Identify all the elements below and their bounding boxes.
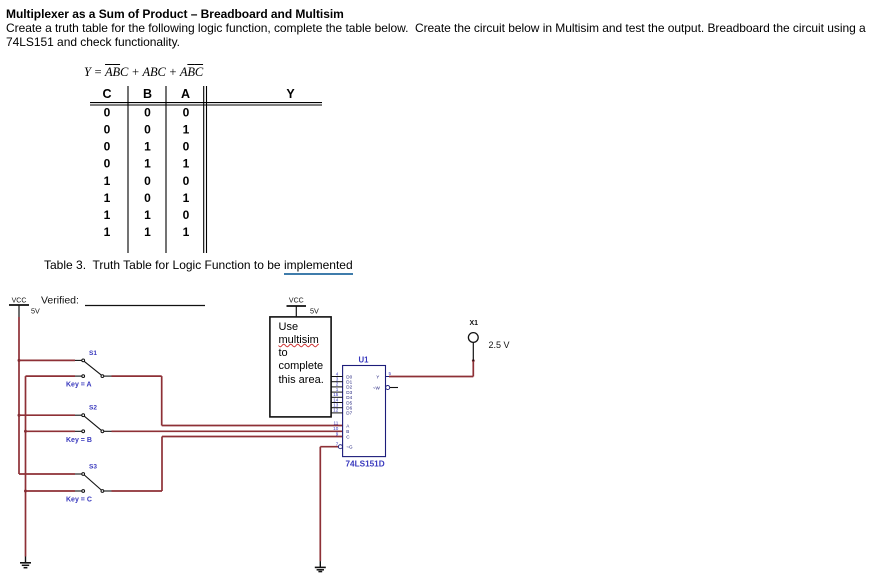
svg-text:1: 1: [144, 157, 151, 171]
svg-text:0: 0: [183, 208, 190, 222]
svg-text:0: 0: [104, 123, 111, 137]
svg-text:S1: S1: [89, 350, 97, 357]
svg-text:5V: 5V: [31, 307, 40, 316]
svg-text:0: 0: [183, 105, 190, 119]
svg-text:12: 12: [333, 408, 339, 413]
svg-text:9: 9: [336, 431, 339, 436]
svg-text:Key = B: Key = B: [66, 437, 92, 444]
svg-text:~G: ~G: [346, 445, 353, 450]
svg-text:1: 1: [104, 174, 111, 188]
svg-text:U1: U1: [359, 356, 370, 365]
svg-text:Key = A: Key = A: [66, 382, 92, 389]
svg-text:~W: ~W: [373, 385, 381, 390]
svg-text:1: 1: [144, 140, 151, 154]
svg-text:1: 1: [104, 208, 111, 222]
svg-text:VCC: VCC: [289, 298, 304, 305]
svg-text:A: A: [181, 87, 190, 101]
svg-text:1: 1: [104, 225, 111, 239]
svg-text:0: 0: [104, 140, 111, 154]
svg-text:1: 1: [183, 123, 190, 137]
svg-text:1: 1: [144, 225, 151, 239]
svg-text:Key = C: Key = C: [66, 497, 92, 504]
svg-text:1: 1: [144, 208, 151, 222]
svg-text:0: 0: [104, 157, 111, 171]
svg-text:0: 0: [183, 140, 190, 154]
svg-text:5: 5: [389, 371, 392, 376]
svg-text:S3: S3: [89, 464, 97, 471]
svg-text:7: 7: [336, 442, 339, 447]
svg-text:0: 0: [144, 123, 151, 137]
svg-text:74LS151D: 74LS151D: [346, 459, 385, 468]
svg-text:0: 0: [183, 174, 190, 188]
svg-text:Y: Y: [376, 374, 379, 379]
svg-text:B: B: [143, 87, 152, 101]
svg-text:1: 1: [183, 225, 190, 239]
svg-text:1: 1: [104, 191, 111, 205]
svg-text:Verified:: Verified:: [41, 295, 79, 307]
svg-text:S2: S2: [89, 405, 97, 412]
svg-text:0: 0: [104, 105, 111, 119]
svg-text:D7: D7: [346, 411, 352, 416]
svg-text:11: 11: [334, 420, 339, 425]
svg-text:2.5 V: 2.5 V: [489, 340, 510, 350]
svg-text:X1: X1: [470, 320, 479, 327]
svg-text:0: 0: [144, 191, 151, 205]
svg-text:5V: 5V: [310, 307, 319, 316]
svg-text:1: 1: [183, 157, 190, 171]
svg-text:C: C: [102, 87, 111, 101]
svg-text:VCC: VCC: [12, 298, 27, 305]
svg-text:0: 0: [144, 105, 151, 119]
svg-text:Y: Y: [286, 87, 295, 101]
svg-text:1: 1: [183, 191, 190, 205]
svg-text:0: 0: [144, 174, 151, 188]
